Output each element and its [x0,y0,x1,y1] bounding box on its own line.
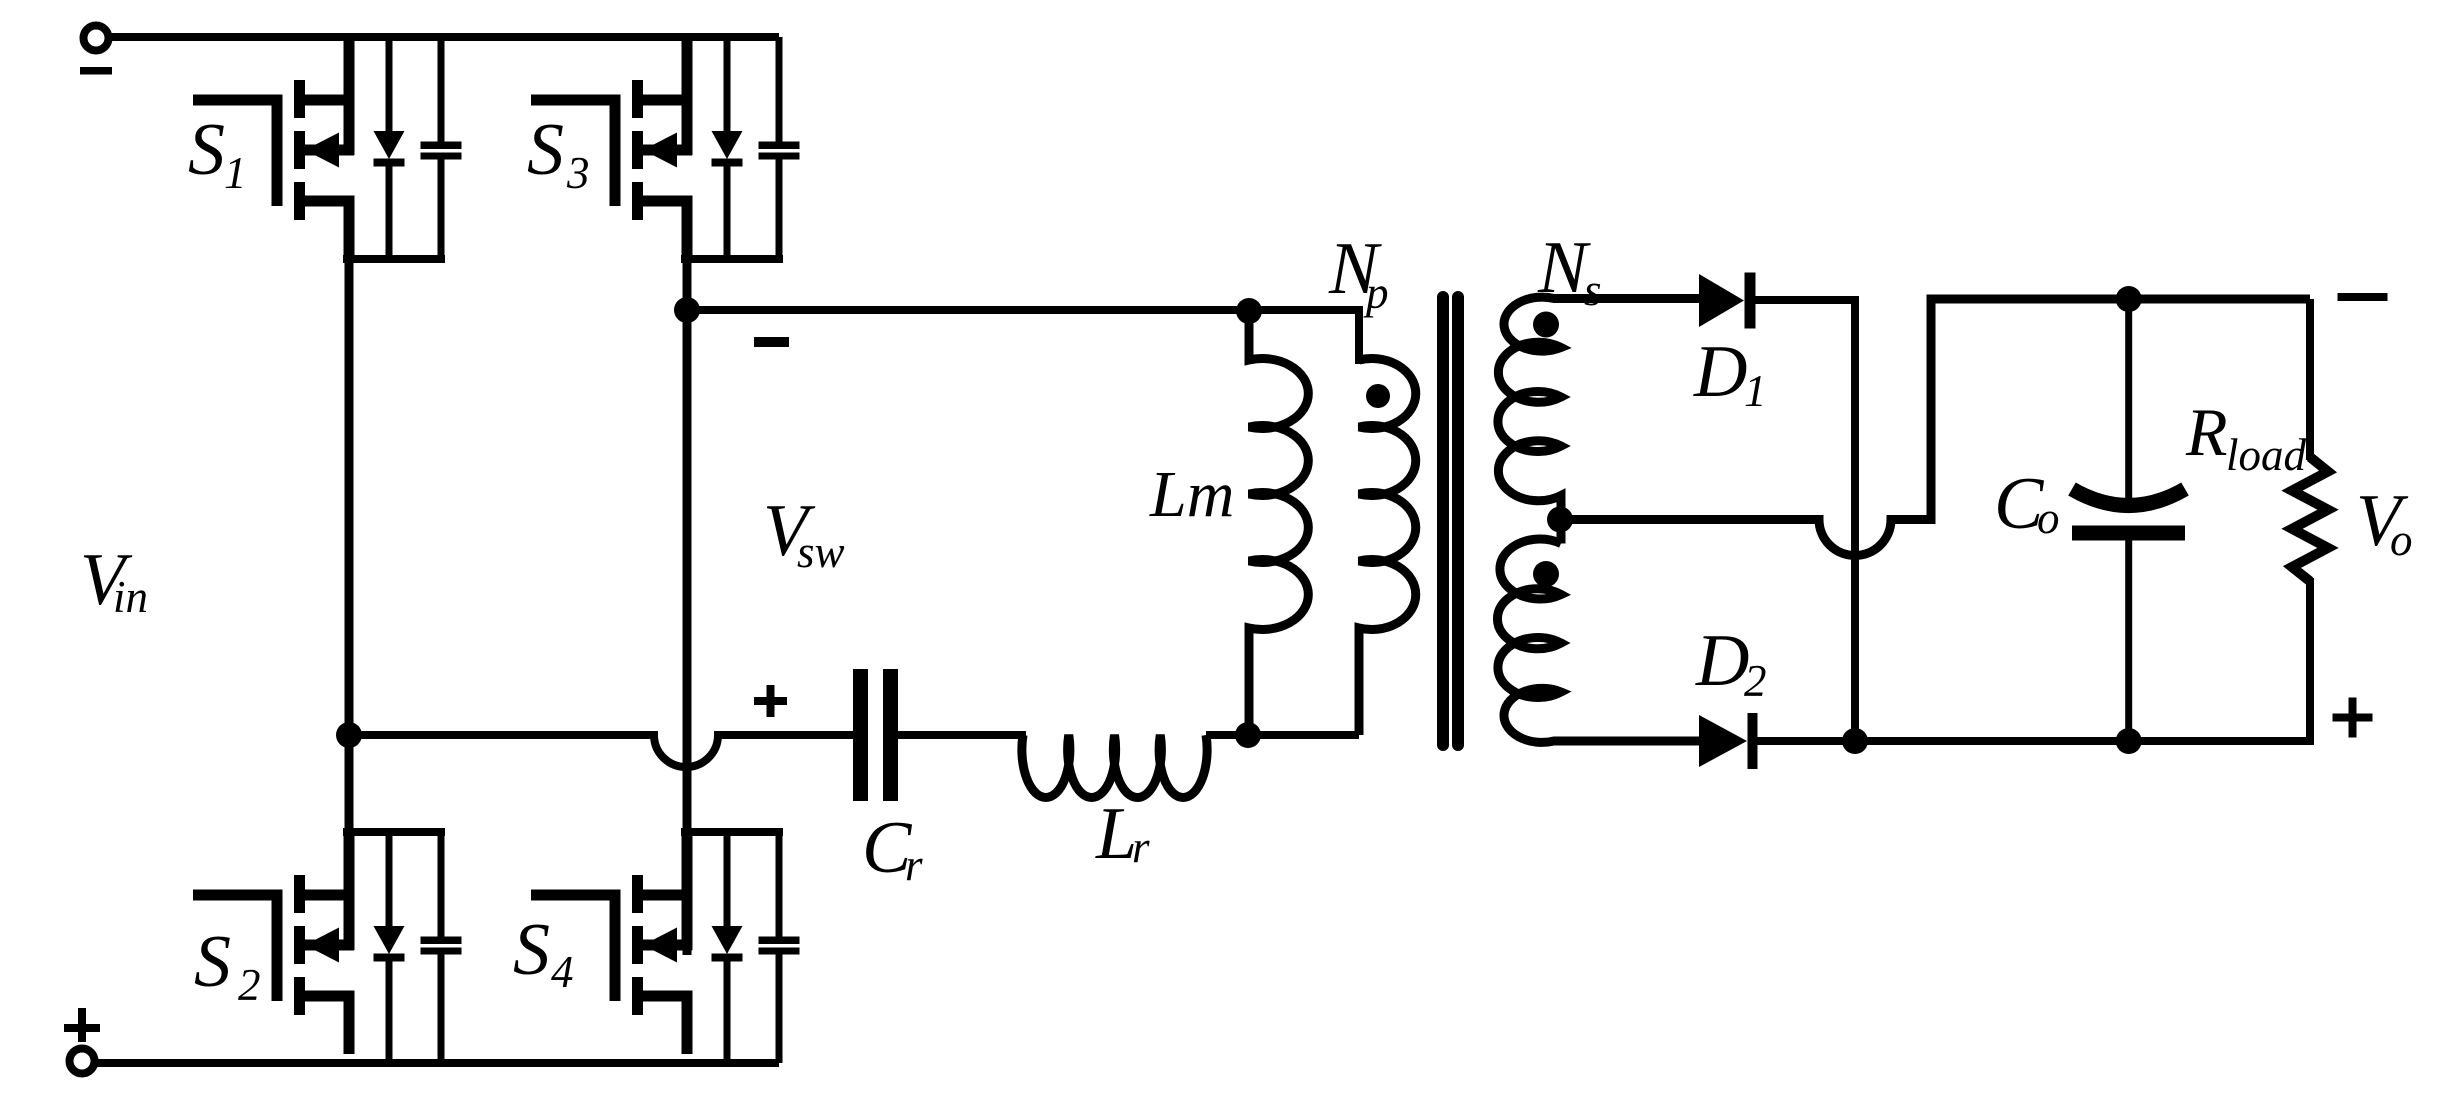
S4 gate [531,895,615,1001]
S1 body diode [386,37,393,132]
wire node B to transformer primary top [687,310,1359,364]
S1 body arrow [305,145,354,156]
S1 drain lead [305,95,354,106]
svg-text:s: s [1584,265,1602,315]
Ns upper polarity dot [1533,312,1559,338]
S2 channel contact bars [294,875,305,913]
svg-text:sw: sw [797,527,845,577]
svg-text:load: load [2226,430,2307,480]
input terminal bottom (positive) [70,1049,95,1074]
S2 body arrow [305,940,354,951]
node A (S1-S2 junction) [336,722,362,748]
node C2 (Lm top tap) [1236,298,1262,324]
inductor Lm [1249,311,1308,735]
node E (rectifier junction) [1842,728,1868,754]
inductor Lr [1022,735,1207,798]
wire S3 source through node B to S4 drain [683,201,692,955]
diode D1 [1699,274,1744,327]
S1 source lead [305,201,349,259]
S3 body diode [724,37,731,132]
node D (secondary center tap) [1547,507,1573,533]
S4 source lead [643,996,687,1054]
diode D2 [1699,715,1747,767]
wire node A to Cr (hop over S3-S4 leg) [349,735,853,767]
S2 drain lead [305,890,354,901]
wire Rload bottom corner [2306,737,2314,745]
S4 body diode [724,832,731,927]
svg-text:2: 2 [1744,656,1767,706]
wire center tap to output top rail (hop over D1 wire) [1560,299,2310,556]
svg-text:S: S [513,909,550,991]
svg-text:N: N [1537,227,1591,309]
wire Cr to Lr [898,731,1026,739]
svg-text:p: p [1363,268,1389,318]
svg-text:S: S [194,921,231,1003]
wire node C to primary bottom [1248,731,1359,739]
wire Lr to node C [1206,731,1252,739]
Vsw polarity plus [754,697,787,705]
S3 drain column [682,37,693,155]
svg-text:3: 3 [566,148,590,198]
S3 parallel capacitor [776,37,783,142]
wire D2 cathode to output bottom rail [1757,737,2310,745]
svg-text:1: 1 [224,148,247,198]
S3 drain lead [643,95,692,106]
S2 body diode [386,832,393,927]
svg-text:o: o [2037,493,2060,543]
S2 parallel capacitor [438,832,445,937]
node F (output top / Co) [2116,286,2142,312]
wire node A to S2 drain [345,735,354,837]
wire top rail [108,33,779,41]
S4 channel contact bars [632,875,643,913]
S2 source lead [305,996,349,1054]
wire S4 cell top tie [681,828,783,836]
S3 channel contact bars [632,80,643,118]
wire S3 cell bottom tie [681,255,783,263]
S4 parallel capacitor [776,832,783,937]
S2 gate [193,895,277,1001]
transistor S3 (MOSFET with body diode and capacitor) [531,37,800,259]
Np polarity dot [1366,384,1390,408]
input polarity plus [64,1024,100,1032]
transformer primary winding Np [1359,359,1416,736]
wire S1 cell bottom tie [343,255,445,263]
Ns lower polarity dot [1533,561,1559,587]
transformer secondary winding Ns lower [1497,539,1699,742]
svg-text:S: S [527,109,564,191]
wire S2 cell top tie [343,828,445,836]
S3 gate [531,100,615,206]
node B (S3-S4 junction, switch node) [674,297,700,323]
Vsw polarity minus [754,337,789,347]
svg-text:r: r [905,840,923,890]
svg-text:D: D [1693,331,1747,413]
S1 gate [193,100,277,206]
resistor Rload [2306,299,2314,460]
svg-text:in: in [113,572,148,622]
transistor S1 (MOSFET with body diode and capacitor) [193,37,462,259]
S1 channel contact bars [294,80,305,118]
S2 drain column [344,832,355,950]
svg-text:1: 1 [1744,366,1767,416]
svg-text:D: D [1695,620,1749,702]
capacitor Co [2125,299,2132,509]
svg-text:4: 4 [551,947,574,997]
S4 drain column [682,832,693,950]
S4 drain lead [643,890,692,901]
wire bottom rail [94,1059,779,1067]
svg-text:R: R [2185,394,2228,470]
input terminal top (negative) [84,26,109,51]
output polarity plus [2333,714,2373,722]
wire S1 source to node A [345,201,354,735]
capacitor Cr [853,669,868,801]
transformer core [1437,297,1449,745]
transistor S4 (MOSFET with body diode and capacitor) [531,832,800,1063]
S1 parallel capacitor [438,37,445,142]
input polarity minus [80,67,112,75]
transistor S2 (MOSFET with body diode and capacitor) [193,832,462,1063]
svg-text:L: L [1095,793,1137,875]
svg-text:S: S [188,109,225,191]
S3 source lead [643,201,687,259]
output polarity minus [2338,293,2388,301]
svg-text:2: 2 [238,960,261,1010]
S4 body arrow [643,940,692,951]
node G (output bottom / Co) [2116,728,2142,754]
svg-text:r: r [1132,822,1150,872]
S1 drain column [344,37,355,155]
svg-text:Lm: Lm [1149,458,1234,531]
node C (tank to primary bottom) [1235,722,1261,748]
svg-text:o: o [2390,515,2413,565]
transformer secondary winding Ns upper [1498,297,1699,543]
wire D1 cathode down to node E [1851,300,1859,741]
S3 body arrow [643,145,692,156]
